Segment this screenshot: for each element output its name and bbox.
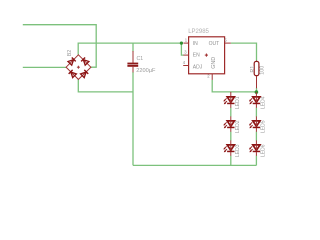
plus mark inside IC — [205, 54, 208, 57]
svg-text:C1: C1 — [137, 56, 144, 62]
svg-text:2200µF: 2200µF — [136, 68, 156, 74]
diode D top-left (points NE) — [68, 57, 76, 65]
pin EN stub — [183, 54, 188, 56]
svg-text:EN: EN — [193, 53, 200, 59]
bridge B2 — [66, 50, 91, 80]
wire AC2: left edge to bridge left vertex — [23, 66, 66, 68]
pin OUT stub — [225, 42, 231, 44]
body — [254, 61, 259, 75]
diode D top-right (points NW) — [81, 57, 89, 65]
wire C1 bottom down to bottom rail — [132, 72, 134, 165]
wire VIN: bridge top vertex up and right to IC IN — [78, 43, 183, 55]
LED3 — [223, 140, 240, 157]
LED5 — [249, 116, 267, 133]
top red lead — [256, 61, 258, 62]
pin GND stub — [211, 74, 213, 80]
pin ADJ stub — [183, 65, 188, 67]
svg-text:GND: GND — [211, 57, 217, 69]
pin lead top — [132, 51, 134, 63]
plates — [127, 63, 138, 65]
LED6 — [249, 140, 267, 157]
wire LED1 column greens — [231, 108, 257, 166]
svg-text:B2: B2 — [67, 50, 73, 57]
svg-text:LED1: LED1 — [235, 96, 241, 109]
bridge plus mark — [77, 66, 80, 69]
LED4 — [249, 92, 267, 109]
svg-text:LED6: LED6 — [261, 144, 267, 157]
svg-text:LP2985: LP2985 — [188, 29, 209, 35]
bridge diamond outline — [66, 55, 91, 80]
resistor R1 — [250, 61, 266, 89]
svg-text:IN: IN — [193, 41, 198, 47]
node junction dot R1/LEDs — [255, 90, 259, 94]
wire LED4 column greens — [255, 108, 257, 117]
diode D bottom-right (points NE) — [80, 70, 88, 78]
LED2 — [223, 116, 240, 133]
LED1 — [223, 92, 240, 109]
op-amp U1 regulator LP2985 box — [183, 29, 231, 80]
svg-text:ADJ: ADJ — [193, 64, 203, 70]
wire C1 top lead — [132, 43, 134, 51]
svg-text:LED3: LED3 — [235, 144, 241, 157]
wire bottom rail — [133, 164, 256, 166]
bottom red lead — [256, 76, 258, 89]
wire bridge bottom vertex to C1 vertical — [78, 79, 133, 92]
svg-text:LED5: LED5 — [261, 120, 267, 133]
svg-text:R1: R1 — [250, 66, 256, 73]
diode D bottom-left (points NW) — [69, 70, 77, 78]
wire AC1 top: left edge to corner then down to bridge right vertex — [23, 25, 96, 67]
pin lead bottom — [132, 67, 134, 73]
svg-text:100: 100 — [260, 66, 266, 75]
wire OUT to R1 top — [231, 43, 257, 61]
pin IN stub — [183, 42, 188, 44]
svg-text:LED2: LED2 — [235, 120, 241, 133]
wire R1 bottom to junction — [256, 88, 258, 92]
svg-text:OUT: OUT — [209, 41, 220, 47]
node junction dot at IN — [180, 42, 183, 45]
capacitor C1 — [127, 51, 156, 74]
svg-text:LED4: LED4 — [261, 96, 267, 109]
wire EN drop from junction — [181, 43, 183, 55]
wire GND drop to LED rail — [212, 80, 256, 92]
